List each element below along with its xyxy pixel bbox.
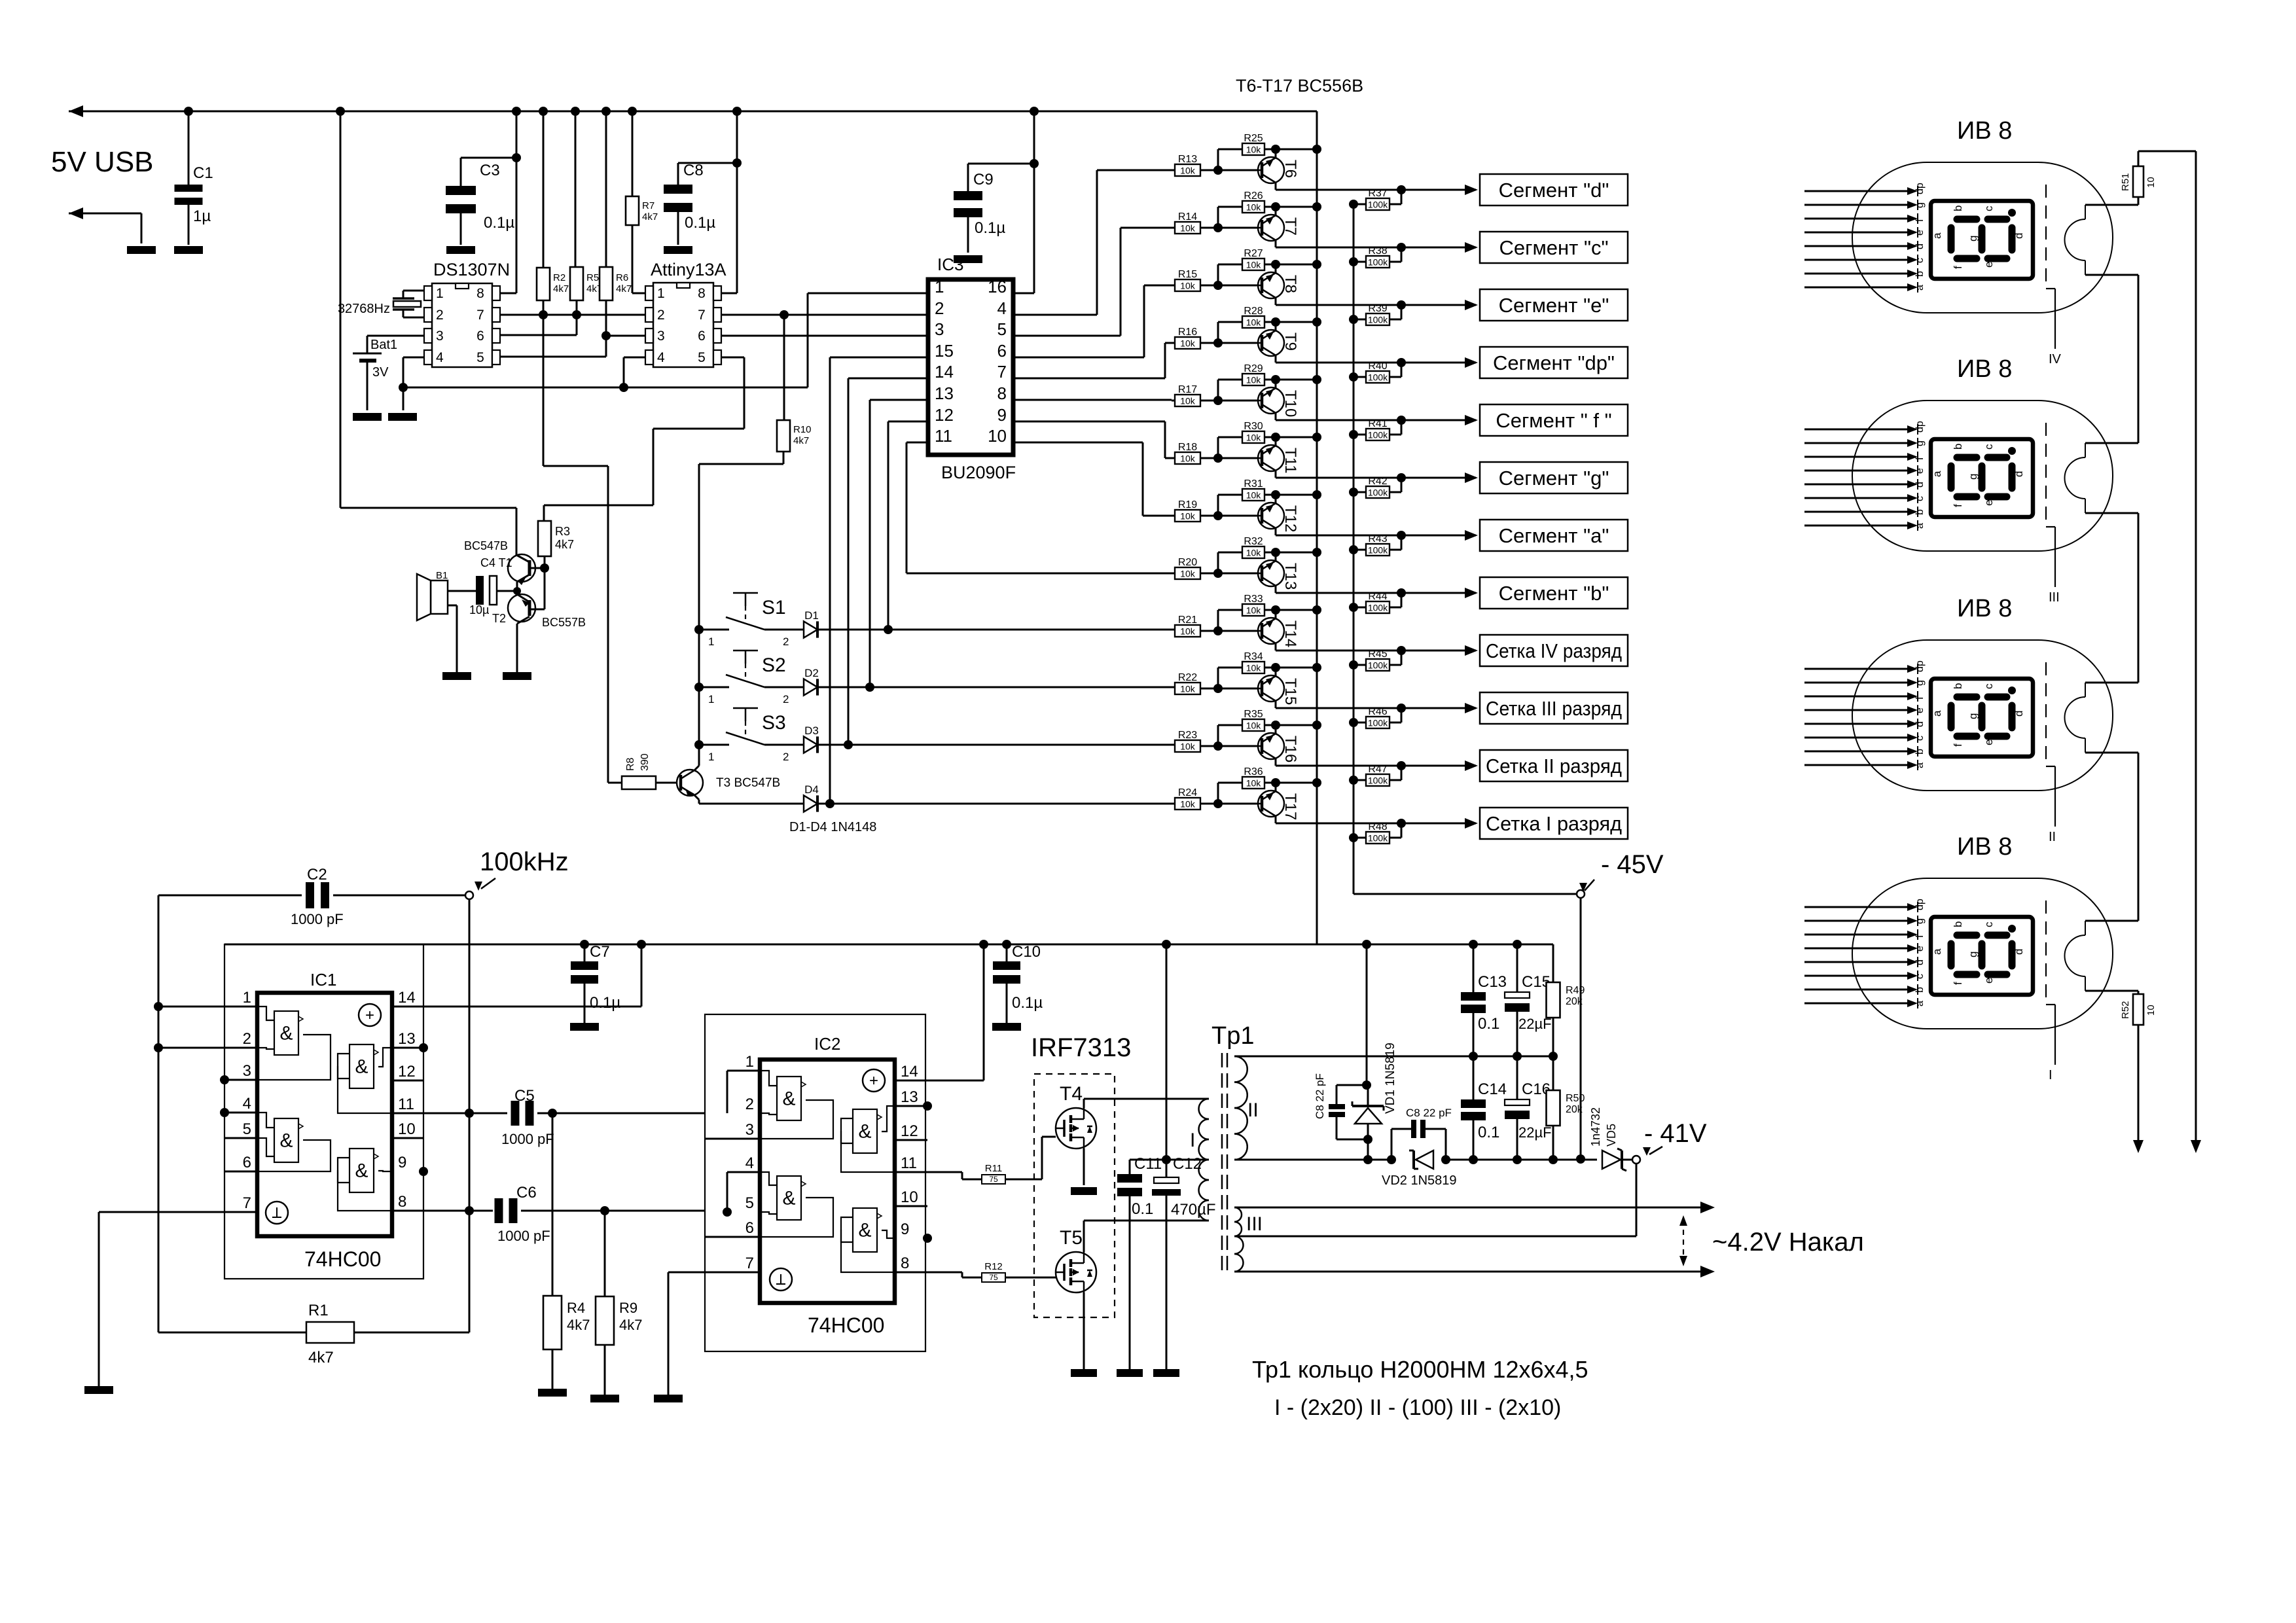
svg-text:II: II [2049, 830, 2056, 844]
svg-text:2: 2 [935, 298, 944, 318]
svg-text:b: b [1914, 509, 1926, 515]
svg-text:1000 pF: 1000 pF [501, 1131, 554, 1147]
resistor R4 4k7 [552, 1113, 554, 1296]
svg-text:R6: R6 [616, 272, 628, 283]
svg-text:I: I [2049, 1068, 2053, 1082]
resistor R25 10k [1217, 149, 1219, 170]
output arrow 3 [1465, 300, 1478, 310]
wire IC3 pin13 to D2 row [870, 399, 928, 401]
wire IC2 pin9/10 tie [923, 1234, 932, 1243]
svg-text:7: 7 [997, 362, 1007, 382]
svg-text:9: 9 [901, 1221, 909, 1238]
svg-text:BC557B: BC557B [542, 616, 586, 629]
svg-text:R47: R47 [1368, 764, 1387, 775]
resistor R34 10k [1217, 668, 1219, 688]
svg-text:10k: 10k [1180, 281, 1196, 291]
svg-text:4k7: 4k7 [567, 1317, 590, 1333]
svg-text:R3: R3 [555, 525, 570, 538]
svg-text:10k: 10k [1180, 569, 1196, 579]
wire output row 9 [1276, 650, 1476, 652]
capacitor C5 1000pF [511, 1101, 520, 1126]
svg-text:4k7: 4k7 [619, 1317, 642, 1333]
resistor R38 100k [1349, 257, 1358, 266]
wire DS pin8 to rail [512, 107, 521, 116]
svg-text:6: 6 [997, 341, 1007, 361]
wire IC3 pin6 to row3 [1013, 357, 1144, 359]
svg-text:10k: 10k [1246, 317, 1262, 328]
svg-text:f: f [1952, 266, 1964, 269]
svg-text:R34: R34 [1244, 651, 1263, 662]
svg-text:100k: 100k [1368, 430, 1388, 440]
diode D4 1N4148 [699, 803, 804, 805]
svg-text:dp: dp [1914, 183, 1926, 194]
5V vertical rail (drivers) [1316, 111, 1318, 944]
svg-text:Сегмент "e": Сегмент "e" [1499, 294, 1609, 317]
svg-text:C7: C7 [590, 943, 610, 961]
svg-text:&: & [858, 1121, 871, 1143]
gate IC1.D [350, 1149, 374, 1192]
svg-text:f: f [1952, 504, 1964, 507]
svg-text:DS1307N: DS1307N [433, 260, 510, 279]
svg-text:C10: C10 [1012, 943, 1041, 961]
svg-text:R39: R39 [1368, 303, 1387, 314]
svg-text:c: c [1914, 258, 1926, 263]
wire R6 to ATtiny pin3 [606, 335, 645, 337]
wire winding II bottom [1234, 1159, 1391, 1161]
resistor R17 10k [1175, 395, 1200, 406]
transistor T11 BC556B [1258, 445, 1284, 471]
wire output row 6 [1276, 477, 1476, 479]
label box Сегмент "g" [1480, 462, 1628, 493]
svg-text:a: a [1914, 285, 1926, 291]
svg-text:dp: dp [1914, 421, 1926, 433]
resistor R10 4k7 [783, 315, 785, 420]
svg-text:R33: R33 [1244, 594, 1263, 605]
svg-text:R16: R16 [1178, 327, 1197, 338]
wire IC1 pin7 ground [99, 1211, 257, 1213]
wire -45V feed [1354, 893, 1577, 895]
svg-text:R20: R20 [1178, 557, 1197, 568]
transistor T2 BC557B [508, 594, 535, 622]
svg-text:7: 7 [476, 308, 484, 323]
capacitor C16 22µF [1516, 1056, 1518, 1099]
svg-text:R9: R9 [619, 1300, 637, 1316]
svg-text:6: 6 [745, 1219, 754, 1237]
wire winding II top [1234, 1056, 1553, 1058]
-45V 100k rail [1353, 206, 1355, 894]
svg-text:f: f [1914, 219, 1926, 222]
svg-text:1n4732: 1n4732 [1589, 1107, 1602, 1147]
svg-text:C8: C8 [683, 162, 704, 179]
svg-text:14: 14 [901, 1063, 918, 1080]
svg-text:9: 9 [997, 405, 1007, 425]
svg-text:10k: 10k [1246, 490, 1262, 501]
svg-text:R19: R19 [1178, 499, 1197, 510]
svg-text:10k: 10k [1180, 741, 1196, 752]
svg-text:11: 11 [398, 1096, 414, 1113]
svg-text:a: a [1914, 1001, 1926, 1007]
svg-text:R52: R52 [2120, 1001, 2131, 1019]
resistor R31 10k [1217, 495, 1219, 516]
svg-text:&: & [782, 1088, 795, 1110]
svg-text:R29: R29 [1244, 363, 1263, 374]
svg-text:4k7: 4k7 [555, 538, 574, 551]
svg-text:Сетка II разряд: Сетка II разряд [1486, 755, 1622, 777]
wire filament chain [2138, 275, 2140, 443]
segments display [1957, 454, 1977, 461]
svg-text:10k: 10k [1246, 375, 1262, 385]
svg-text:7: 7 [243, 1194, 251, 1212]
svg-text:11: 11 [935, 426, 952, 446]
svg-text:10k: 10k [1246, 721, 1262, 731]
svg-text:2: 2 [657, 308, 665, 323]
dashed box IRF7313 [1034, 1074, 1115, 1317]
svg-text:12: 12 [901, 1122, 918, 1140]
svg-text:&: & [858, 1220, 871, 1241]
svg-text:D2: D2 [804, 667, 819, 679]
svg-text:R14: R14 [1178, 211, 1197, 223]
crystal 32768Hz [403, 290, 424, 292]
svg-text:d: d [1914, 721, 1926, 727]
svg-text:a: a [1931, 471, 1943, 477]
transistor T16 BC556B [1258, 733, 1284, 759]
resistor R36 10k [1217, 783, 1219, 804]
svg-text:+: + [365, 1007, 374, 1024]
svg-text:3: 3 [935, 319, 944, 339]
svg-text:a: a [1914, 523, 1926, 529]
resistor R2 4k7 [539, 107, 548, 116]
svg-text:10: 10 [398, 1120, 416, 1138]
svg-text:Сегмент "d": Сегмент "d" [1499, 179, 1609, 202]
ground (C12) [1153, 1369, 1179, 1377]
wire ATtiny pin6 to IC3 pin3 [721, 335, 928, 337]
svg-text:10k: 10k [1180, 799, 1196, 810]
svg-text:10: 10 [2145, 1005, 2157, 1016]
svg-text:10k: 10k [1180, 454, 1196, 464]
svg-text:4k7: 4k7 [308, 1349, 334, 1366]
svg-text:ИВ 8: ИВ 8 [1957, 595, 2012, 622]
resistor R42 100k [1349, 488, 1358, 497]
svg-text:g: g [1914, 680, 1926, 686]
transistor T15 BC556B [1258, 675, 1284, 702]
ground (C1) [174, 246, 203, 254]
svg-text:c: c [1982, 444, 1995, 450]
svg-text:100k: 100k [1368, 257, 1388, 268]
wire IC2 pin14 to 5V [895, 1080, 984, 1082]
capacitor C10 0.1µ [1002, 940, 1011, 949]
svg-text:f: f [1914, 935, 1926, 938]
resistor R39 100k [1349, 315, 1358, 324]
svg-text:R43: R43 [1368, 533, 1387, 544]
capacitor C4 10µ [476, 576, 484, 605]
svg-text:&: & [782, 1188, 795, 1209]
resistor R1 4k7 [158, 1332, 306, 1334]
svg-text:T7: T7 [1282, 217, 1299, 236]
svg-text:C13: C13 [1478, 973, 1507, 991]
terminal 100kHz [465, 891, 473, 899]
filament connections [2085, 204, 2138, 206]
transistor T13 BC556B [1258, 560, 1284, 586]
svg-text:d: d [1914, 482, 1926, 488]
wire T3 emitter to D4 row [694, 795, 699, 800]
svg-text:T6: T6 [1282, 160, 1299, 178]
svg-text:4: 4 [745, 1154, 754, 1172]
svg-text:1000 pF: 1000 pF [497, 1228, 550, 1244]
svg-text:7: 7 [698, 308, 706, 323]
wire ATtiny pin4 to ground bus [624, 357, 645, 359]
wire output row 4 [1276, 362, 1476, 364]
svg-text:C12: C12 [1173, 1155, 1202, 1173]
wire IC1 pins1,2 tie [158, 895, 160, 1332]
svg-text:R12: R12 [984, 1261, 1003, 1272]
capacitor C14 0.1 [1473, 1056, 1475, 1099]
wire output row 11 [1276, 765, 1476, 767]
resistor R5 4k7 [571, 107, 580, 116]
svg-text:R4: R4 [567, 1300, 585, 1316]
resistor R8 390 [622, 776, 656, 789]
core Tp1 [1221, 1053, 1223, 1275]
svg-text:B1: B1 [436, 570, 448, 581]
svg-text:12: 12 [935, 405, 954, 425]
svg-text:13: 13 [935, 383, 954, 403]
IC BU2090F [928, 279, 1013, 455]
svg-text:1: 1 [436, 286, 444, 301]
label box Сетка III разряд [1480, 692, 1628, 724]
diode VD1 1N5819 [1366, 944, 1368, 1085]
transistor T14 BC556B [1258, 618, 1284, 644]
IC1 power symbol [359, 1004, 381, 1026]
svg-text:C6: C6 [516, 1184, 537, 1202]
svg-text:R23: R23 [1178, 730, 1197, 741]
svg-text:C8 22 pF: C8 22 pF [1314, 1073, 1326, 1119]
gate IC1.B [274, 1118, 298, 1162]
svg-text:a: a [1931, 948, 1943, 955]
svg-text:d: d [2013, 949, 2025, 955]
svg-text:BC547B: BC547B [464, 539, 508, 552]
capacitor C3 [460, 158, 462, 186]
wire R5 to DS pin6 [576, 315, 578, 335]
segments display [1957, 694, 1977, 701]
svg-text:R30: R30 [1244, 421, 1263, 432]
svg-text:10: 10 [988, 426, 1007, 446]
svg-text:10k: 10k [1246, 433, 1262, 443]
svg-text:I - (2x20) II - (100) III - (2: I - (2x20) II - (100) III - (2x10) [1274, 1395, 1561, 1420]
svg-text:74HC00: 74HC00 [808, 1313, 884, 1337]
wire output row 8 [1276, 592, 1476, 594]
resistor R28 10k [1217, 322, 1219, 343]
svg-text:c: c [1914, 736, 1926, 741]
resistor R27 10k [1217, 264, 1219, 285]
svg-text:C5: C5 [514, 1087, 535, 1105]
svg-text:~4.2V Накал: ~4.2V Накал [1712, 1228, 1864, 1257]
output arrow 9 [1465, 645, 1478, 656]
svg-text:II: II [1247, 1099, 1259, 1121]
wire R8 feed [543, 315, 545, 466]
filament connections [2085, 920, 2138, 922]
svg-text:e: e [1914, 707, 1926, 713]
resistor R23 10k [1175, 740, 1200, 752]
label box Сегмент "e" [1480, 289, 1628, 321]
segments display [1957, 932, 1977, 939]
svg-text:0.1µ: 0.1µ [1012, 994, 1043, 1012]
svg-text:D1: D1 [804, 609, 819, 622]
transistor T8 BC556B [1258, 272, 1284, 298]
wire output row 3 [1276, 304, 1476, 306]
svg-text:12: 12 [398, 1063, 416, 1080]
wire output row 12 [1276, 823, 1476, 825]
svg-text:R8: R8 [625, 757, 636, 771]
switch S1 [694, 625, 704, 634]
svg-text:1: 1 [657, 286, 665, 301]
transistor T3 BC547B [656, 782, 681, 784]
svg-text:d: d [2013, 711, 2025, 717]
resistor R51 10 [2133, 166, 2144, 197]
resistor R33 10k [1217, 610, 1219, 631]
svg-text:100k: 100k [1368, 833, 1388, 844]
svg-text:1: 1 [708, 635, 714, 648]
svg-text:R36: R36 [1244, 766, 1263, 777]
wire T2 collector to ground [516, 624, 518, 672]
wire R3 to T1/T2 bases [544, 556, 546, 609]
resistor R41 100k [1349, 430, 1358, 439]
svg-text:75: 75 [989, 1273, 998, 1282]
label box Сетка II разряд [1480, 750, 1628, 781]
svg-text:C3: C3 [480, 162, 500, 179]
svg-text:R24: R24 [1178, 787, 1197, 798]
svg-text:2: 2 [243, 1030, 251, 1048]
svg-text:Сегмент "b": Сегмент "b" [1499, 582, 1609, 605]
svg-text:470µF: 470µF [1171, 1201, 1216, 1219]
svg-text:10k: 10k [1180, 338, 1196, 349]
svg-text:1: 1 [745, 1053, 754, 1071]
ground (R4) [538, 1389, 567, 1397]
svg-text:R31: R31 [1244, 478, 1263, 490]
grid electrode [2045, 185, 2047, 289]
ground (IC1 pin7) [84, 1386, 113, 1394]
svg-text:e: e [1982, 978, 1995, 984]
resistor R13 10k [1175, 164, 1200, 176]
resistor R32 10k [1217, 552, 1219, 573]
svg-text:C1: C1 [193, 164, 213, 182]
svg-text:R49: R49 [1566, 985, 1585, 996]
svg-text:3V: 3V [372, 365, 389, 380]
svg-text:f: f [1952, 743, 1964, 747]
svg-text:b: b [1952, 683, 1964, 689]
segment input wires [1804, 190, 1909, 192]
svg-text:100k: 100k [1368, 315, 1388, 325]
capacitor C8 [677, 163, 679, 185]
wire IC3 pin14 to D3 row [848, 378, 928, 380]
resistor R20 10k [1175, 567, 1200, 579]
capacitor C9 [967, 164, 969, 191]
IC1 74HC00 outer box [224, 944, 423, 1279]
svg-text:e: e [1914, 946, 1926, 952]
svg-text:Сегмент " f ": Сегмент " f " [1496, 409, 1611, 432]
svg-text:a: a [1931, 232, 1943, 239]
resistor R21 10k [1175, 625, 1200, 637]
svg-text:74HC00: 74HC00 [304, 1247, 381, 1271]
svg-text:IC1: IC1 [310, 970, 336, 990]
ground (B1) [442, 672, 471, 680]
ground (T5) [1071, 1369, 1097, 1377]
svg-text:III: III [2049, 590, 2060, 605]
ground (T4) [1071, 1187, 1097, 1195]
resistor R6 4k7 [601, 107, 611, 116]
wire IC3 pin12 to D1 row [888, 421, 928, 423]
svg-text:R45: R45 [1368, 649, 1387, 660]
svg-text:Сегмент "dp": Сегмент "dp" [1493, 351, 1615, 374]
filament connections [2085, 682, 2138, 684]
resistor R44 100k [1349, 603, 1358, 612]
wire IC3 pin15 to D4 row [830, 357, 928, 359]
IC2 ground symbol [770, 1268, 792, 1291]
svg-text:2: 2 [745, 1096, 754, 1113]
wire C8/ATtiny pin8 to rail [732, 107, 742, 116]
svg-text:5: 5 [745, 1194, 754, 1212]
output arrow 8 [1465, 588, 1478, 598]
svg-text:S1: S1 [762, 597, 786, 618]
svg-text:10k: 10k [1180, 223, 1196, 234]
resistor R15 10k [1175, 279, 1200, 291]
svg-text:R41: R41 [1368, 418, 1387, 429]
svg-text:R11: R11 [985, 1163, 1002, 1174]
svg-text:R26: R26 [1244, 190, 1263, 202]
svg-text:R1: R1 [308, 1302, 329, 1319]
svg-text:10k: 10k [1246, 202, 1262, 213]
svg-text:R28: R28 [1244, 306, 1263, 317]
ground (C11) [1117, 1369, 1143, 1377]
svg-text:R17: R17 [1178, 384, 1197, 395]
resistor R35 10k [1217, 725, 1219, 746]
svg-text:g: g [1967, 236, 1979, 241]
svg-text:6: 6 [698, 329, 706, 344]
svg-text:d: d [1914, 243, 1926, 249]
svg-text:IRF7313: IRF7313 [1031, 1033, 1131, 1062]
IC2 power symbol [863, 1069, 885, 1092]
svg-text:10k: 10k [1180, 166, 1196, 176]
resistor R46 100k [1349, 718, 1358, 727]
resistor R40 100k [1349, 372, 1358, 382]
svg-text:b: b [1952, 205, 1964, 211]
output arrow 6 [1465, 473, 1478, 483]
segment input wires [1804, 906, 1909, 908]
battery Bat1 3V [367, 335, 424, 337]
svg-text:b: b [1952, 444, 1964, 450]
svg-text:1: 1 [708, 693, 714, 705]
svg-text:Сегмент "a": Сегмент "a" [1499, 524, 1609, 547]
svg-text:R37: R37 [1368, 188, 1387, 199]
resistor R50 20k [1552, 1056, 1554, 1090]
svg-text:100k: 100k [1368, 200, 1388, 210]
svg-text:a: a [1914, 762, 1926, 768]
resistor R16 10k [1175, 337, 1200, 349]
svg-text:C9: C9 [973, 171, 994, 188]
svg-text:c: c [1914, 974, 1926, 979]
svg-text:- 45V: - 45V [1601, 850, 1664, 879]
wire 5V to primary center tap [1166, 944, 1168, 1160]
capacitor C8 22pF (VD1) [1336, 1084, 1367, 1086]
svg-text:3: 3 [657, 329, 665, 344]
grid electrode [2045, 423, 2047, 527]
svg-text:14: 14 [935, 362, 954, 382]
svg-text:4: 4 [436, 350, 444, 365]
ground (C7) [570, 1023, 599, 1031]
wire speaker to ground [448, 605, 457, 607]
speaker B1 [431, 580, 448, 614]
svg-text:10k: 10k [1180, 396, 1196, 406]
svg-text:+: + [869, 1072, 878, 1090]
svg-text:R42: R42 [1368, 476, 1387, 487]
